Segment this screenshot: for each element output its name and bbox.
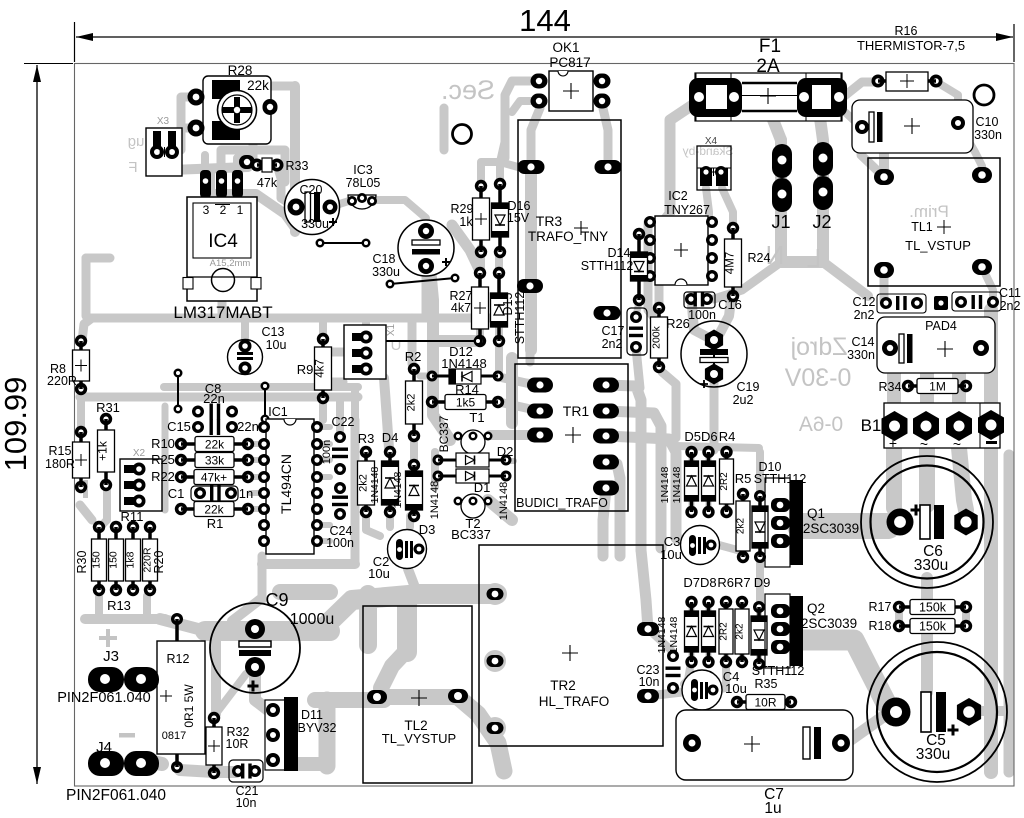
svg-text:C14: C14 bbox=[852, 335, 875, 349]
svg-text:2: 2 bbox=[220, 203, 227, 217]
svg-text:R4: R4 bbox=[719, 429, 736, 444]
svg-text:10u: 10u bbox=[725, 681, 747, 696]
svg-text:~: ~ bbox=[953, 436, 961, 452]
svg-text:C1: C1 bbox=[168, 486, 185, 501]
svg-text:C22: C22 bbox=[332, 415, 355, 429]
svg-text:22k: 22k bbox=[205, 437, 225, 451]
svg-text:22n: 22n bbox=[237, 419, 259, 434]
svg-text:1u: 1u bbox=[764, 800, 781, 817]
svg-text:47k: 47k bbox=[257, 176, 278, 190]
svg-text:2SC3039: 2SC3039 bbox=[801, 616, 857, 631]
svg-text:R9: R9 bbox=[297, 362, 314, 377]
svg-text:U: U bbox=[391, 337, 402, 354]
svg-text:R14: R14 bbox=[455, 382, 479, 397]
svg-text:R3: R3 bbox=[358, 431, 375, 446]
svg-text:D9: D9 bbox=[754, 575, 771, 590]
svg-text:1N4148: 1N4148 bbox=[659, 466, 671, 503]
svg-text:33k: 33k bbox=[205, 453, 225, 467]
svg-text:F: F bbox=[128, 159, 137, 176]
svg-text:1000u: 1000u bbox=[290, 611, 335, 628]
svg-text:Sec.: Sec. bbox=[441, 75, 495, 105]
svg-text:TL494CN: TL494CN bbox=[278, 454, 294, 514]
svg-text:J3: J3 bbox=[103, 648, 119, 665]
svg-text:PAD4: PAD4 bbox=[925, 319, 957, 333]
svg-text:OK1: OK1 bbox=[552, 40, 579, 55]
svg-text:4M7: 4M7 bbox=[725, 252, 737, 274]
svg-text:X1: X1 bbox=[386, 323, 397, 336]
svg-text:100n: 100n bbox=[321, 440, 333, 464]
svg-text:2n2: 2n2 bbox=[602, 337, 623, 351]
svg-text:180R: 180R bbox=[45, 457, 75, 471]
svg-text:Q2: Q2 bbox=[807, 601, 825, 616]
svg-text:D1: D1 bbox=[474, 480, 491, 495]
svg-text:TL1: TL1 bbox=[911, 220, 933, 234]
svg-text:1N4148: 1N4148 bbox=[656, 616, 668, 653]
svg-text:22k: 22k bbox=[247, 78, 269, 93]
svg-text:TR1: TR1 bbox=[563, 403, 590, 419]
svg-text:150k: 150k bbox=[919, 600, 947, 614]
svg-text:R20: R20 bbox=[152, 550, 166, 573]
svg-text:+: + bbox=[889, 435, 897, 451]
svg-text:330u: 330u bbox=[914, 557, 948, 574]
svg-text:1N4148: 1N4148 bbox=[392, 471, 404, 508]
svg-text:X2: X2 bbox=[133, 448, 146, 459]
svg-text:F1: F1 bbox=[759, 36, 781, 57]
svg-text:D11: D11 bbox=[301, 708, 323, 722]
svg-text:4k7: 4k7 bbox=[451, 301, 471, 315]
svg-text:1N4148: 1N4148 bbox=[429, 481, 441, 520]
svg-text:D14: D14 bbox=[608, 246, 631, 260]
svg-text:10R: 10R bbox=[226, 737, 249, 751]
svg-text:J1: J1 bbox=[771, 212, 790, 232]
svg-text:R18: R18 bbox=[869, 619, 892, 633]
svg-text:R35: R35 bbox=[755, 677, 778, 691]
svg-text:TR2: TR2 bbox=[550, 678, 576, 693]
svg-text:R22: R22 bbox=[151, 469, 175, 484]
svg-text:C16: C16 bbox=[718, 297, 742, 312]
svg-text:C19: C19 bbox=[737, 380, 760, 394]
svg-text:R16: R16 bbox=[895, 24, 918, 38]
svg-text:THERMISTOR-7,5: THERMISTOR-7,5 bbox=[857, 38, 965, 53]
svg-text:R34: R34 bbox=[879, 380, 902, 394]
svg-text:1N4148: 1N4148 bbox=[671, 466, 683, 503]
svg-text:2k2: 2k2 bbox=[736, 518, 747, 535]
svg-text:C9: C9 bbox=[265, 590, 288, 610]
svg-text:+1k: +1k bbox=[96, 440, 110, 461]
svg-text:R28: R28 bbox=[228, 63, 253, 78]
svg-text:C11: C11 bbox=[999, 286, 1021, 300]
svg-text:22k: 22k bbox=[204, 502, 224, 516]
svg-text:2A: 2A bbox=[756, 56, 780, 77]
svg-text:200k: 200k bbox=[651, 325, 663, 349]
svg-text:C13: C13 bbox=[262, 325, 285, 339]
svg-text:100n: 100n bbox=[688, 308, 716, 322]
svg-text:Prim.: Prim. bbox=[909, 202, 949, 221]
svg-text:0R1 5W: 0R1 5W bbox=[182, 684, 196, 728]
svg-text:150k: 150k bbox=[919, 619, 947, 633]
svg-text:R24: R24 bbox=[748, 251, 771, 265]
svg-text:330u: 330u bbox=[301, 217, 329, 231]
svg-text:22n: 22n bbox=[203, 391, 225, 406]
svg-text:1k5: 1k5 bbox=[456, 395, 476, 409]
svg-text:R10: R10 bbox=[151, 436, 175, 451]
svg-text:IC2: IC2 bbox=[668, 189, 688, 203]
svg-text:D4: D4 bbox=[382, 430, 399, 445]
svg-text:78L05: 78L05 bbox=[346, 176, 381, 190]
svg-text:STTH112: STTH112 bbox=[581, 259, 634, 273]
svg-text:1N4148: 1N4148 bbox=[498, 482, 510, 521]
svg-text:330n: 330n bbox=[847, 348, 875, 362]
svg-text:IC4: IC4 bbox=[208, 231, 238, 252]
svg-text:C15: C15 bbox=[167, 419, 191, 434]
svg-text:BUDICI_TRAFO: BUDICI_TRAFO bbox=[516, 496, 608, 510]
svg-text:R13: R13 bbox=[107, 598, 131, 613]
svg-text:109.99: 109.99 bbox=[0, 377, 33, 472]
svg-text:TRAFO_TNY: TRAFO_TNY bbox=[528, 229, 608, 244]
svg-text:TR3: TR3 bbox=[536, 213, 563, 229]
svg-text:10R: 10R bbox=[754, 695, 776, 709]
svg-text:J2: J2 bbox=[812, 212, 831, 232]
svg-text:R29: R29 bbox=[451, 202, 474, 216]
svg-text:R5: R5 bbox=[735, 471, 752, 486]
svg-text:D5D6: D5D6 bbox=[684, 429, 717, 444]
svg-text:R26: R26 bbox=[666, 316, 690, 331]
svg-text:220R: 220R bbox=[47, 374, 77, 388]
svg-text:C20: C20 bbox=[300, 183, 323, 197]
svg-text:2k2: 2k2 bbox=[406, 394, 418, 412]
svg-text:150: 150 bbox=[91, 551, 103, 569]
svg-text:B1: B1 bbox=[861, 416, 882, 435]
svg-text:R12: R12 bbox=[167, 652, 190, 666]
svg-text:LM317MABT: LM317MABT bbox=[173, 303, 272, 322]
svg-text:STTH112: STTH112 bbox=[754, 472, 807, 486]
svg-text:1k8: 1k8 bbox=[125, 551, 137, 568]
svg-text:X4: X4 bbox=[705, 136, 718, 147]
svg-text:PIN2F061.040: PIN2F061.040 bbox=[57, 690, 151, 706]
svg-text:C12: C12 bbox=[853, 295, 876, 309]
svg-text:330u: 330u bbox=[916, 746, 950, 763]
svg-text:J4: J4 bbox=[96, 739, 112, 756]
svg-text:TNY267: TNY267 bbox=[664, 203, 710, 217]
svg-text:R31: R31 bbox=[96, 400, 120, 415]
svg-text:2SC3039: 2SC3039 bbox=[803, 521, 859, 536]
svg-text:2u2: 2u2 bbox=[733, 393, 754, 407]
svg-text:10u: 10u bbox=[368, 566, 390, 581]
svg-text:D7D8: D7D8 bbox=[683, 575, 716, 590]
svg-text:0-30V: 0-30V bbox=[784, 364, 851, 392]
svg-text:BYV32: BYV32 bbox=[298, 721, 337, 735]
svg-text:STTH112: STTH112 bbox=[513, 292, 527, 345]
svg-text:C10: C10 bbox=[976, 115, 999, 129]
svg-text:TL_VSTUP: TL_VSTUP bbox=[905, 238, 971, 253]
svg-text:0817: 0817 bbox=[162, 730, 186, 742]
svg-text:150: 150 bbox=[108, 551, 120, 569]
svg-text:L: L bbox=[807, 243, 821, 273]
svg-text:T1: T1 bbox=[469, 410, 484, 425]
svg-text:2k2: 2k2 bbox=[358, 474, 370, 492]
svg-text:144: 144 bbox=[519, 3, 571, 38]
svg-text:~: ~ bbox=[920, 436, 928, 452]
svg-text:4k7: 4k7 bbox=[315, 359, 327, 378]
svg-text:2n2: 2n2 bbox=[854, 308, 875, 322]
svg-text:R33: R33 bbox=[286, 159, 309, 173]
svg-text:IC3: IC3 bbox=[353, 163, 373, 177]
svg-text:47k+: 47k+ bbox=[201, 470, 227, 484]
svg-text:TL_VYSTUP: TL_VYSTUP bbox=[382, 731, 456, 746]
svg-text:330n: 330n bbox=[974, 128, 1002, 142]
svg-text:STTH112: STTH112 bbox=[752, 664, 805, 678]
svg-text:0-6A: 0-6A bbox=[799, 413, 843, 436]
svg-text:IC1: IC1 bbox=[268, 405, 288, 419]
svg-text:1N4148: 1N4148 bbox=[668, 616, 680, 653]
svg-text:10n: 10n bbox=[639, 675, 660, 689]
svg-text:PC817: PC817 bbox=[549, 55, 590, 70]
svg-text:10n: 10n bbox=[236, 796, 257, 810]
svg-text:R15: R15 bbox=[49, 444, 72, 458]
svg-text:R25: R25 bbox=[151, 452, 175, 467]
svg-text:C18: C18 bbox=[373, 252, 396, 266]
svg-text:1n: 1n bbox=[239, 486, 253, 501]
svg-text:D2: D2 bbox=[497, 444, 514, 459]
svg-text:2k2: 2k2 bbox=[735, 623, 746, 640]
svg-text:C17: C17 bbox=[602, 324, 625, 338]
svg-text:A15,2mm: A15,2mm bbox=[210, 258, 251, 269]
svg-text:100n: 100n bbox=[326, 536, 354, 550]
svg-text:1: 1 bbox=[237, 203, 244, 217]
svg-text:Zdroj: Zdroj bbox=[791, 333, 848, 361]
svg-text:PIN2F061.040: PIN2F061.040 bbox=[66, 787, 166, 804]
svg-text:BC337: BC337 bbox=[437, 415, 451, 452]
svg-text:R30: R30 bbox=[75, 550, 89, 573]
svg-text:1M: 1M bbox=[929, 379, 946, 393]
svg-text:R6R7: R6R7 bbox=[717, 575, 750, 590]
svg-text:10u: 10u bbox=[266, 338, 287, 352]
svg-text:ug: ug bbox=[128, 133, 145, 150]
svg-text:R2: R2 bbox=[405, 349, 422, 364]
svg-text:R1: R1 bbox=[207, 516, 224, 531]
svg-text:1N4148: 1N4148 bbox=[441, 356, 487, 371]
svg-text:1k: 1k bbox=[459, 215, 473, 229]
svg-text:HL_TRAFO: HL_TRAFO bbox=[539, 694, 610, 709]
svg-text:3: 3 bbox=[203, 203, 210, 217]
svg-text:1N4148: 1N4148 bbox=[369, 466, 381, 503]
svg-text:330u: 330u bbox=[372, 265, 400, 279]
svg-text:BC337: BC337 bbox=[451, 527, 491, 542]
svg-text:Q1: Q1 bbox=[807, 506, 825, 521]
svg-text:R17: R17 bbox=[869, 600, 892, 614]
svg-text:X3: X3 bbox=[157, 116, 170, 127]
svg-text:2n2: 2n2 bbox=[1000, 299, 1021, 313]
svg-text:2R2: 2R2 bbox=[719, 622, 730, 641]
svg-text:2R2: 2R2 bbox=[719, 472, 730, 491]
